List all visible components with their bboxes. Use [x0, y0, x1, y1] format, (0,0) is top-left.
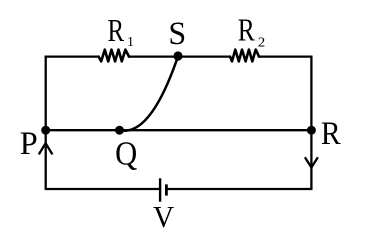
- wire: bottom left segment to battery: [45, 188, 161, 190]
- arrow down on right branch: [305, 157, 318, 167]
- wire: bottom right segment battery to corner: [166, 188, 312, 190]
- svg-text:S: S: [168, 16, 186, 53]
- svg-text:R: R: [321, 115, 341, 152]
- node S dot: [173, 51, 182, 60]
- resistor R2: [230, 50, 259, 62]
- node R dot: [307, 126, 316, 135]
- battery V long plate: [159, 178, 161, 201]
- svg-text:1: 1: [127, 35, 134, 50]
- svg-text:2: 2: [258, 35, 265, 51]
- resistor R1: [99, 50, 129, 62]
- wire: right vertical branch: [310, 57, 312, 189]
- arrow up on left branch: [39, 143, 53, 154]
- label R: [321, 115, 341, 152]
- label R2: [238, 13, 256, 48]
- node P dot: [41, 126, 50, 135]
- svg-text:P: P: [20, 125, 38, 161]
- wire: middle horizontal P to R: [46, 129, 312, 131]
- label Q: [115, 134, 137, 172]
- wire: top left segment to R1: [45, 55, 99, 57]
- label P: [20, 125, 38, 161]
- wire: top middle segment R1 to R2 through node S: [129, 55, 230, 57]
- wire: left vertical branch: [45, 57, 47, 189]
- wire: slider curve Q to S: [120, 56, 179, 130]
- battery V short plate: [165, 184, 168, 195]
- label R1: [108, 14, 125, 48]
- svg-text:R: R: [238, 13, 256, 48]
- node Q dot: [115, 126, 124, 135]
- svg-text:R: R: [108, 14, 125, 48]
- wire: top right segment R2 to corner: [259, 55, 313, 57]
- svg-text:Q: Q: [115, 134, 137, 172]
- label S: [168, 16, 186, 53]
- svg-text:V: V: [153, 200, 175, 234]
- label V: [153, 200, 175, 234]
